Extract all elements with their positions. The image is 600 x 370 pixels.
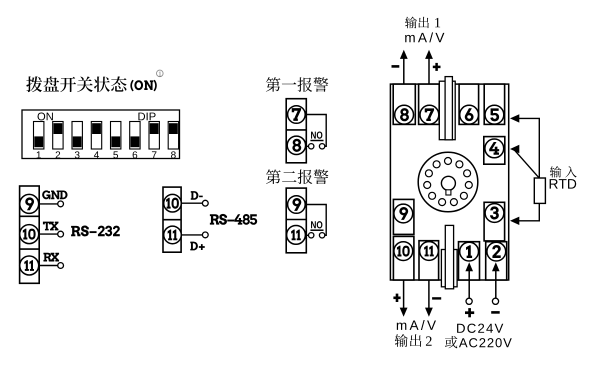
switch 7 lever (up) [149, 122, 159, 150]
node D- terminal [202, 200, 208, 206]
polarity minus [392, 65, 400, 68]
label mA/V [405, 32, 444, 42]
RS-485 terminal block [163, 187, 181, 252]
bottom key slot [441, 250, 457, 287]
label output 2 [395, 334, 422, 347]
label TX [43, 222, 59, 231]
pin 6 circle [460, 105, 479, 124]
switch 3 lever (dn) [72, 122, 82, 150]
pin number 4 [94, 151, 99, 158]
pin 8 (alarm-1) [287, 136, 305, 154]
pin 10 circle [394, 242, 413, 261]
note mark circled-1 [157, 70, 164, 77]
wire output1 positive (pin 7) [428, 58, 430, 85]
wire output1 negative (pin 8) [403, 58, 405, 85]
switch 8 lever (up) [168, 122, 178, 150]
cell divider [20, 248, 40, 250]
pin 1 circle [460, 242, 479, 261]
pin 8 circle [395, 105, 414, 124]
terminal box pin 4 [484, 137, 505, 165]
socket pin hole 9 [424, 182, 431, 189]
title: second alarm [266, 169, 328, 184]
label D+ [190, 242, 204, 251]
wire TX [39, 233, 58, 235]
terminal box pin 6 [459, 84, 479, 124]
wire RTD to pin 4 [510, 145, 519, 153]
polarity plus [465, 311, 474, 314]
label NO [311, 131, 322, 138]
wire pin9 to NO contact [305, 205, 326, 236]
cell divider [286, 129, 306, 131]
pin number 3 [75, 151, 80, 158]
socket pin hole 4 [465, 182, 472, 189]
wire GND [39, 203, 58, 205]
node power plus terminal [466, 298, 472, 304]
pin 7 circle [420, 105, 439, 124]
pin 11 (RX) [20, 256, 39, 275]
socket pin hole 10 [425, 170, 432, 177]
pin 9 (GND) [20, 194, 39, 213]
title: DIP switch state (ON) [26, 76, 126, 92]
label input RTD [550, 166, 577, 177]
terminal box pin 2 [486, 242, 507, 280]
pin 5 circle [485, 105, 504, 124]
node RX terminal [58, 263, 64, 269]
resistor RTD sensor [534, 178, 545, 203]
socket pin hole 5 [460, 192, 467, 199]
socket pin hole 1 [445, 158, 452, 165]
label RX [43, 253, 59, 262]
RS-232 terminal block [20, 186, 40, 283]
terminal box pin 8 [393, 84, 415, 124]
pin 10 (TX) [20, 225, 39, 244]
label D- [191, 191, 203, 200]
pin number 8 [171, 151, 176, 158]
socket pin hole 8 [429, 192, 436, 199]
wire pin11 to NO contact [305, 234, 308, 236]
label NO [311, 221, 322, 228]
NO contact (normally open) [309, 233, 314, 238]
switch 1 lever (dn) [34, 122, 44, 150]
polarity minus [491, 311, 500, 314]
pin 3 circle [485, 204, 504, 223]
pin 7 (alarm-1) [288, 106, 306, 124]
label DC24V [457, 324, 503, 333]
cell divider [163, 219, 181, 221]
node GND terminal [58, 201, 64, 207]
top key slot [439, 81, 455, 140]
pin number 6 [133, 151, 138, 158]
socket pin hole 3 [464, 170, 471, 177]
centre keyway [441, 176, 455, 190]
label output 1 [405, 17, 429, 29]
label RS-485 [210, 214, 257, 225]
label or AC220V [445, 336, 457, 348]
pin 11 circle [420, 242, 439, 261]
cell divider [20, 215, 40, 217]
terminal box pin 5 [484, 84, 504, 124]
wire RTD to pin 3 [510, 217, 519, 225]
label mA/V [397, 320, 436, 330]
label GND [42, 190, 67, 199]
switch 2 lever (up) [53, 122, 63, 150]
alarm-1 terminal block [286, 99, 306, 163]
pin number 7 [152, 151, 157, 158]
wire output2 positive (pin 10) [403, 280, 405, 308]
terminal box pin 1 [459, 242, 480, 280]
polarity minus [432, 297, 441, 299]
polarity plus [393, 296, 400, 299]
label ON [38, 112, 53, 120]
wire RTD to pin 5 [510, 114, 519, 122]
node D+ terminal [202, 232, 208, 238]
label RS-232 [71, 226, 120, 237]
polarity plus [433, 66, 441, 69]
pin number 2 [56, 151, 61, 158]
socket centre circle [418, 152, 478, 212]
wire power L (pin 1) [468, 271, 470, 299]
wire power N (pin 2) [495, 271, 497, 299]
label DIP [138, 113, 155, 121]
cell divider [286, 219, 306, 221]
pin 11 (alarm-2) [287, 226, 306, 245]
wire D+ [181, 234, 203, 236]
switch 4 lever (up) [91, 122, 101, 150]
alarm-2 terminal block [286, 188, 306, 253]
node power minus terminal [492, 298, 498, 304]
terminal box pin 9 [393, 199, 414, 234]
wire pin7 to NO contact [305, 115, 326, 147]
pin 2 circle [487, 242, 506, 261]
terminal box pin 3 [484, 202, 505, 241]
switch 5 lever (dn) [111, 122, 121, 150]
node TX terminal [58, 231, 64, 237]
socket pin hole 2 [456, 161, 463, 168]
switch 6 lever (dn) [130, 122, 140, 150]
wire D- [181, 202, 203, 204]
wire RX [39, 265, 58, 267]
socket pin hole 7 [439, 199, 446, 206]
title: first alarm [266, 77, 328, 92]
socket U1 (11-pin rear view) outline [390, 84, 508, 280]
pin number 1 [37, 151, 41, 158]
pin 4 circle [485, 139, 504, 158]
pin 10 (D-) [164, 194, 182, 212]
terminal box pin 10 [393, 236, 414, 280]
terminal box pin 7 [419, 84, 440, 124]
socket pin hole 6 [450, 199, 457, 206]
DIP switch S1 (8-position) body [22, 110, 180, 159]
wire output2 negative (pin 11) [428, 280, 430, 308]
pin 9 circle [394, 204, 413, 223]
terminal box pin 11 [419, 241, 439, 280]
wire pin8 to NO contact [305, 145, 308, 147]
pin 9 (alarm-2) [288, 196, 306, 214]
pin number 5 [113, 151, 118, 158]
pin 11 (D+) [164, 226, 182, 244]
socket pin hole 11 [433, 161, 440, 168]
NO contact (normally open) [309, 144, 314, 149]
